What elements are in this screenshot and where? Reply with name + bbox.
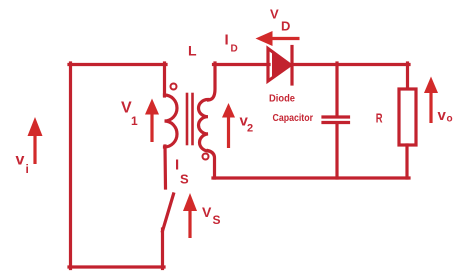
svg-text:I: I xyxy=(175,157,179,174)
wire capacitor bottom xyxy=(335,124,338,178)
wire secondary top xyxy=(209,63,216,100)
switch S blade xyxy=(163,194,174,231)
wire switch to bottom rail xyxy=(161,229,164,269)
arrow VS xyxy=(183,193,197,238)
svg-text:Diode: Diode xyxy=(269,93,295,105)
wire left-loop bottom xyxy=(69,265,164,268)
svg-text:I: I xyxy=(225,32,229,49)
wire capacitor top xyxy=(335,63,338,116)
transformer core xyxy=(187,94,193,144)
diode D apex fill xyxy=(272,53,293,78)
wire right vertical to resistor xyxy=(406,63,409,89)
diode D triangle xyxy=(268,49,291,82)
arrow vi xyxy=(28,117,43,164)
svg-text:o: o xyxy=(447,114,453,125)
label VS xyxy=(202,204,221,227)
svg-text:D: D xyxy=(281,19,290,34)
arrow vo xyxy=(424,77,438,124)
wire resistor bottom xyxy=(405,145,408,178)
inductor secondary winding xyxy=(199,100,209,152)
svg-text:D: D xyxy=(231,44,238,55)
capacitor C top plate xyxy=(323,115,349,118)
arrow v2 xyxy=(222,103,235,148)
wire secondary bottom xyxy=(208,151,215,179)
label vo xyxy=(438,107,453,125)
arrow V1 xyxy=(145,99,159,143)
inductor primary winding L xyxy=(165,95,178,147)
svg-text:v: v xyxy=(16,152,25,169)
wire primary top xyxy=(163,63,166,96)
wire output bottom rail xyxy=(213,176,409,179)
wire top rail anode side xyxy=(214,63,270,66)
label vi xyxy=(16,152,29,177)
wire left-loop top xyxy=(69,63,166,66)
capacitor C bottom plate xyxy=(323,121,349,124)
svg-text:L: L xyxy=(188,43,197,59)
label v2 xyxy=(240,113,254,135)
svg-text:S: S xyxy=(213,213,221,227)
label V1 xyxy=(121,100,138,129)
svg-text:S: S xyxy=(180,172,189,187)
polarity dot primary xyxy=(171,84,177,90)
label VD xyxy=(270,7,290,34)
resistor R body xyxy=(399,89,416,145)
svg-text:2: 2 xyxy=(247,123,253,135)
wire left-loop left (vi source branch) xyxy=(69,63,72,269)
svg-text:Capacitor: Capacitor xyxy=(273,113,314,124)
arrow VD xyxy=(256,31,300,46)
label IS xyxy=(175,157,189,187)
svg-text:1: 1 xyxy=(131,114,138,128)
polarity dot secondary xyxy=(203,154,209,160)
svg-text:i: i xyxy=(26,162,29,176)
label ID xyxy=(225,32,238,55)
wire primary bottom xyxy=(163,146,167,188)
svg-text:V: V xyxy=(270,7,279,22)
wire top rail cathode side xyxy=(292,63,409,66)
svg-text:v: v xyxy=(438,107,447,124)
diode D cathode bar xyxy=(290,47,293,85)
svg-text:R: R xyxy=(376,110,383,125)
svg-text:V: V xyxy=(202,204,212,220)
